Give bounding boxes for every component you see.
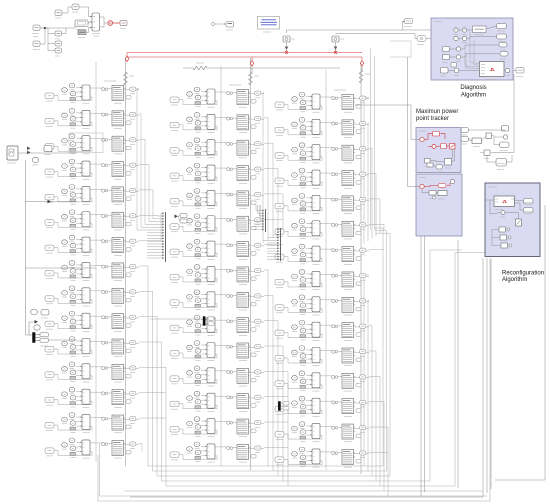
block: reconfig m3 [501,243,508,248]
wire: left vertical trunk [25,160,27,335]
block: mppt1 sum2 (red) [432,145,436,149]
svg-text:Reconfiguration: Reconfiguration [502,271,544,277]
block: const d3 [441,68,449,74]
PV cell module 2-3 [170,138,264,158]
block: out Reconf [524,208,534,214]
block: from tag P2 [461,137,469,142]
block: minmax [473,26,487,33]
block: terminator [120,20,127,25]
PV cell module 3-8 [275,270,369,290]
block: reconfig m2 [500,235,507,240]
wire: string 2 measurement staircase upper [263,93,283,244]
block: constant c1 [55,31,62,36]
PV cell module 1-10 [45,311,139,331]
block: reconfig chart [494,196,515,207]
block: left scope subsystem [7,146,18,160]
block: diagnosis sum 2a [454,36,458,40]
PV cell module 2-11 [170,341,264,361]
wire: left lower horizontal [26,267,97,269]
wire: string 3 measurement staircase lower [364,275,388,496]
block: out flag 4 [500,52,508,57]
block: diagnosis sum 1a [454,28,458,32]
block: chart block [480,62,505,77]
PV cell module 3-1 [275,92,369,112]
PV cell module 1-12 [45,362,139,382]
block: out tag top [502,126,509,132]
block: temperature source top-left [55,10,62,16]
wire: diagnosis output drop [510,70,516,72]
block: out Pout [500,142,510,148]
PV cell module 1-4 [45,159,139,179]
PV cell module 1-5 [45,185,139,205]
block: const d1 [443,47,450,52]
wire: red link to terminator [113,22,120,24]
wire: left mux output [49,339,77,341]
block: goto tag V [405,19,413,24]
block: mppt1 sw (red) [450,144,456,150]
wire: right far vertical [495,205,545,480]
wire: string measurement verticals [370,48,372,230]
PV cell module 3-3 [275,143,369,163]
block: irradiance source top-left [72,4,79,10]
PV cell module 2-7 [170,239,264,259]
PV cell module 3-7 [275,244,369,264]
wire: measurement line A to diagnosis [287,30,453,33]
PV cell module 2-9 [170,290,264,310]
block: reconfig circle [501,211,505,215]
block: mppt2 circle gray [450,179,454,183]
wire: mppt1 red nets [355,105,420,140]
block: out flag 2 [497,34,507,39]
wire: goto tag branch [403,22,405,31]
PV cell module 3-9 [275,295,369,315]
wire: mppt1 lower nets [452,149,454,159]
block: input port In2 [33,41,40,47]
block: product sq [486,133,492,139]
inductor: string 2 [249,72,253,85]
scope: red output port [108,21,113,26]
block: out flag 1 [497,24,507,29]
block: mppt2 gain (red) [438,184,446,188]
PV cell module 2-5 [170,189,264,209]
node: arrow junction 2 [35,320,39,324]
wire: left output line [18,152,77,154]
PV cell module 1-14 [45,413,139,433]
wire: row tap connections [137,89,388,453]
PV cell module 1-11 [45,337,139,357]
wire: string 3 measurement staircase upper [364,98,384,244]
svg-text:Diagnosis: Diagnosis [460,85,486,91]
wire: red positive bus [127,52,362,54]
wire: subsystem top path [62,7,72,13]
block: integrator [472,138,482,144]
block: mppt1 rel (red) [441,144,447,149]
wire: PV string 3 series trunk [360,63,362,474]
block: out flag 3 [499,43,507,48]
inductor: string 1 [124,72,128,85]
wire: reconfig nets [485,200,524,246]
node: arrow junctions left [27,147,31,151]
PV cell module 2-10 [170,315,264,335]
PV cell module 2-2 [170,112,264,132]
block: const d2 [443,55,450,60]
block: sum circle right [503,135,507,139]
svg-text:Algorithm: Algorithm [502,277,527,283]
block: left constant group [31,309,38,315]
block: mppt1 delay blocks [425,159,431,164]
block: memory [496,159,507,167]
wire: sensor drop 2 [335,42,337,48]
block: constant c2 [55,41,62,46]
block: constant c3 [55,48,62,53]
wire: reconfig left drops [420,192,422,496]
node: tri port [480,152,484,154]
wire: string 2 measurement staircase lower [268,270,288,486]
block: reconfig switch [516,219,522,226]
block: mppt2 delays [429,191,436,196]
subsystem: MPPT box 2 [416,174,462,236]
wire: left mux drop [26,322,35,335]
block: mppt2 sum (red) [420,184,424,188]
PV cell module 2-14 [170,417,264,437]
wire: string 1 measurement staircase lower [100,266,167,496]
PV cell module 1-7 [45,235,139,255]
node: sensor tie 1 (red) [285,51,288,54]
block: goto tag I [417,36,426,42]
wire: PV string 1 series trunk [125,58,127,466]
wire: PV string 2 series trunk [250,58,252,470]
node: string 1 connector [125,56,129,62]
PV cell module 2-12 [170,366,264,386]
wire: display to mux [87,22,90,24]
wire: routing loop below tags [390,41,411,57]
PV cell module 1-8 [45,261,139,281]
annotation: model info (blue) [258,17,280,30]
block: diag circle 5 [454,68,459,73]
PV cell module 2-15 [170,442,264,462]
wire: column feeder verticals [96,62,326,470]
resistor: series R top [193,66,207,70]
wire: left horizontal tap [26,201,77,203]
wire: mux to scope [100,17,105,23]
node: sensor tie 2 (red) [334,51,337,54]
wire: col2 mid feeder [150,318,203,320]
node: string 2 connector [250,61,254,67]
subsystem: Diagnosis Algorithm box [431,18,513,80]
block: diagnosis sum 2b [462,36,466,40]
mux: voltage bus creator string 2 [254,205,266,232]
svg-text:Algorithm: Algorithm [461,93,486,99]
PV cell module 1-6 [45,210,139,230]
PV cell module 1-1 [45,83,139,103]
PV cell module 1-2 [45,108,139,128]
node: PV string 3 label [334,89,346,91]
node: string 3 connector [360,61,364,67]
inductor: string 3 [359,70,363,83]
block: current sensor 1 [283,36,290,42]
block: time capture [226,22,234,28]
block: input port In1 [33,25,40,31]
wire: mppt2 nets [408,57,420,187]
mux: left black mux [33,333,36,343]
PV cell module 3-4 [275,168,369,188]
block: PV array subsystem (3-port) [92,13,100,31]
mux: column 2 junction dart [175,214,188,224]
wire: sensor drop 1 [286,42,288,48]
block: clock [211,22,214,25]
block: memory tap [484,150,490,156]
node: PV string 2 label [229,84,241,86]
subsystem: MPPT box 1 [416,128,461,173]
block: out Nstring [524,199,534,205]
mux: column 2 mid black mux [203,317,214,326]
wire: outer return bus [98,259,490,501]
PV cell module 3-12 [275,371,369,391]
PV cell module 3-13 [275,396,369,416]
node: PV string 1 label [104,80,116,82]
svg-text:point tracker: point tracker [416,116,449,122]
mux: voltage bus creator string 2b comb [263,228,283,261]
block: diagnosis output goto tag [516,68,524,74]
mux: voltage bus creator string 1 [137,212,166,262]
block: from tag P1 [461,128,469,133]
PV cell module 3-5 [275,194,369,214]
wire: measurement line B to diagnosis [336,34,418,39]
PV cell module 1-13 [45,387,139,407]
mux: string 3 lower black mux [278,402,289,414]
block: diag circle 4 [456,55,460,59]
wire: bottom routing bus [100,228,488,496]
svg-text:Maximun power: Maximun power [416,109,458,115]
PV cell module 1-15 [45,438,139,458]
PV cell module 3-6 [275,219,369,239]
block: current sensor 2 [332,36,339,42]
wire: reconfig bottom bundle [130,258,483,497]
PV cell module 1-9 [45,286,139,306]
block: small const [451,63,457,68]
PV cell module 3-14 [275,422,369,442]
subsystem: Reconfiguration Algorithm box [485,183,540,257]
block: mppt1 gain (red) [433,132,440,137]
PV cell module 3-11 [275,346,369,366]
block: diag out circle [505,68,509,72]
PV cell module 1-3 [45,134,139,154]
PV cell module 3-10 [275,320,369,340]
wire: row3 routing frame [69,133,103,153]
wire: diagnosis internal nets [448,26,505,71]
block: diagnosis sum 1b [462,28,466,32]
block: dark scope block [78,30,86,35]
block: small tags left [44,146,52,152]
wire: string 1 measurement staircase upper [137,89,161,241]
block: diag circle 3 [456,47,460,51]
wire: memory nets [487,156,496,163]
wire: input junction net [40,28,45,44]
block: display readout [75,20,88,27]
PV cell module 2-1 [170,87,264,107]
PV cell module 3-15 [275,447,369,467]
PV cell module 2-8 [170,265,264,285]
block: mppt1 input sum (red) [420,137,424,141]
PV cell module 2-6 [170,214,264,234]
PV cell module 2-13 [170,391,264,411]
wire: mini cluster nets [469,130,506,145]
wire: clock to block [215,23,226,25]
block: reconfig m1 [499,227,506,232]
PV cell module 2-4 [170,163,264,183]
PV cell module 3-2 [275,117,369,137]
